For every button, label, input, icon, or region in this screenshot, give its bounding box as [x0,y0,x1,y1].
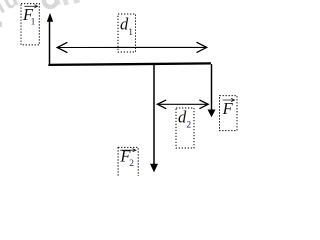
force arrow F2 (downward long) shaft [153,65,155,165]
dimension arrow d1 right head [197,42,207,52]
dimension arrow d2 left head [157,100,166,109]
watermark edge mark [0,22,2,28]
svg-text:F: F [222,99,234,118]
label F2 vector arrow [120,149,136,152]
svg-text:1: 1 [31,17,36,27]
svg-text:1: 1 [128,28,133,38]
force arrow F1 head [47,13,53,22]
force arrow F head [208,110,216,118]
force arrow F2 head [150,164,158,173]
watermark stub fragments [55,0,80,6]
label box F1 (dotted) [21,4,39,45]
beam (horizontal bar) [48,63,211,65]
label box d2 (dotted) [176,108,194,148]
dimension arrow d2 (double-headed) line [157,103,208,105]
label box F (dotted) [220,96,238,131]
svg-text:2: 2 [129,159,134,169]
dimension arrow d2 right head [199,100,208,109]
label F vector arrow [223,98,235,101]
label box d1 (dotted) [118,14,136,52]
watermark ring fragment [44,0,57,7]
force arrow F (downward right) shaft [211,64,213,110]
svg-text:2: 2 [186,121,191,131]
label F1 vector arrow [24,5,37,8]
dimension arrow d1 (double-headed) line [57,46,207,48]
label box F2 (dotted, clipped at bottom) [118,147,138,183]
force arrow F1 (upward) shaft [49,21,51,65]
svg-text:Tu: Tu [0,0,22,20]
dimension arrow d1 left head [57,42,67,52]
